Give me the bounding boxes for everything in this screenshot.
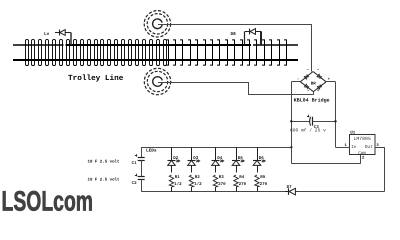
capacitor C1 and C2 chain bbox=[135, 147, 145, 191]
junction dot at LED rail tap bbox=[290, 146, 292, 148]
LED D6 bbox=[253, 147, 265, 172]
op-amp/regulator U1 box bbox=[350, 135, 376, 155]
svg-text:270: 270 bbox=[218, 182, 226, 187]
svg-text:D4: D4 bbox=[217, 156, 223, 161]
resistor R5 bbox=[255, 175, 259, 192]
trolley top rail center segment (live) bbox=[66, 44, 252, 46]
label U1 bbox=[350, 131, 356, 136]
svg-text:10 F 2.5 volt: 10 F 2.5 volt bbox=[88, 177, 120, 182]
label D2 bbox=[173, 156, 179, 161]
trolley top rail left segment bbox=[13, 44, 64, 46]
wire bridge minus lead bbox=[291, 81, 300, 83]
svg-text:Trolley Line: Trolley Line bbox=[68, 74, 124, 83]
svg-text:D5: D5 bbox=[238, 156, 244, 161]
label R5 bbox=[260, 175, 266, 180]
bridge corner mark ac top-right bbox=[317, 69, 320, 73]
svg-text:KBL04 Bridge: KBL04 Bridge bbox=[294, 97, 330, 103]
trolley bottom rail bbox=[13, 59, 298, 61]
wire riser to bridge bottom corner bbox=[313, 92, 315, 95]
wire jog down bbox=[248, 82, 250, 95]
svg-text:D7: D7 bbox=[287, 185, 293, 190]
wire to bridge AC bottom bbox=[248, 94, 313, 96]
svg-text:Out: Out bbox=[365, 144, 373, 150]
bridge label BR bbox=[311, 81, 317, 86]
wire LED bank bottom rail bbox=[141, 191, 284, 193]
svg-text:LM7805: LM7805 bbox=[354, 136, 371, 142]
svg-text:R1: R1 bbox=[175, 175, 181, 180]
svg-text:Com: Com bbox=[358, 151, 366, 156]
svg-text:R3: R3 bbox=[219, 175, 225, 180]
svg-text:D2: D2 bbox=[173, 156, 179, 161]
wire U1 com pin 2 bbox=[360, 155, 362, 163]
label R3 bbox=[219, 175, 225, 180]
bridge BR diamond with diodes bbox=[300, 72, 326, 92]
svg-text:~: ~ bbox=[306, 69, 309, 73]
wire U1 output pin 3 bbox=[375, 147, 384, 149]
label C3 value 600 mf / 25 v bbox=[290, 127, 326, 133]
label D4 bbox=[217, 156, 223, 161]
wire plus rail vertical bbox=[335, 82, 337, 148]
label R2 value 1/2 bbox=[194, 181, 202, 187]
label C1 value 10 F 2.5 volt bbox=[88, 160, 120, 165]
svg-text:1/2: 1/2 bbox=[194, 181, 202, 187]
bridge corner mark plus bottom-right bbox=[317, 88, 320, 93]
label LM7805 bbox=[354, 136, 371, 142]
label R4 value 270 bbox=[239, 182, 247, 187]
label C2 bbox=[132, 181, 138, 186]
capacitor C3 bbox=[291, 115, 335, 126]
diode Lv across rail gap bbox=[55, 30, 71, 46]
label Com bbox=[358, 151, 366, 156]
label R1 bbox=[175, 175, 181, 180]
junction dot at C3 right bbox=[334, 120, 336, 122]
svg-text:LSOLcom: LSOLcom bbox=[2, 185, 94, 216]
svg-text:BR: BR bbox=[311, 81, 317, 86]
wire output down bbox=[384, 147, 386, 191]
label R1 value 1/2 bbox=[174, 181, 182, 187]
label Lv bbox=[44, 32, 50, 37]
bridge corner mark ac top-left bbox=[306, 69, 309, 73]
svg-text:C2: C2 bbox=[132, 181, 138, 186]
label KBL04 Bridge bbox=[294, 97, 330, 103]
LED D5 bbox=[232, 147, 244, 172]
label R4 bbox=[239, 175, 245, 180]
svg-text:2: 2 bbox=[362, 156, 365, 161]
resistor R2 bbox=[189, 175, 193, 192]
svg-text:~: ~ bbox=[307, 89, 310, 93]
label D7 bbox=[287, 185, 293, 190]
junction dot at C3 left bbox=[290, 120, 292, 122]
svg-text:270: 270 bbox=[260, 182, 268, 187]
svg-text:C1: C1 bbox=[132, 161, 138, 166]
label C2 value 10 F 2.5 volt bbox=[88, 177, 120, 182]
resistor R1 bbox=[169, 175, 173, 192]
svg-text:600 mf / 25 v: 600 mf / 25 v bbox=[290, 127, 326, 133]
LED D3 bbox=[188, 147, 200, 172]
wheel pickup P2 (bottom) bbox=[144, 68, 170, 94]
label D3 bbox=[193, 156, 199, 161]
LED D4 bbox=[212, 147, 224, 172]
diode D7 bbox=[284, 188, 296, 195]
wire pickup P1 to corner bbox=[158, 24, 312, 26]
bridge corner mark minus left bbox=[297, 78, 299, 82]
label R3 value 270 bbox=[218, 182, 226, 187]
svg-text:D6: D6 bbox=[259, 156, 265, 161]
svg-text:~: ~ bbox=[317, 69, 320, 73]
svg-text:1/2: 1/2 bbox=[174, 181, 182, 187]
svg-text:270: 270 bbox=[239, 182, 247, 187]
label Trolley Line bbox=[68, 74, 124, 83]
wire bridge plus lead bbox=[326, 81, 335, 83]
svg-text:D3: D3 bbox=[193, 156, 199, 161]
wheel pickup P1 (top) bbox=[144, 11, 170, 37]
label R5 value 270 bbox=[260, 182, 268, 187]
svg-text:R5: R5 bbox=[260, 175, 266, 180]
svg-text:In: In bbox=[351, 145, 357, 150]
bridge corner mark plus right bbox=[328, 77, 331, 82]
pin number 2 bbox=[362, 156, 365, 161]
label C3 bbox=[314, 125, 320, 130]
svg-text:R4: R4 bbox=[239, 175, 245, 180]
resistor R4 bbox=[234, 175, 238, 192]
svg-text:Lv: Lv bbox=[44, 32, 50, 37]
wire pickup P2 right bbox=[158, 82, 248, 84]
wire minus rail vertical bbox=[291, 82, 293, 163]
label R2 bbox=[195, 175, 201, 180]
label Out bbox=[365, 144, 373, 150]
wire U1 input pin 1 bbox=[336, 147, 350, 149]
wire output bottom run bbox=[296, 191, 385, 193]
label D6 bbox=[259, 156, 265, 161]
bridge corner mark ac bottom-left bbox=[307, 89, 310, 93]
trolley top rail right segment bbox=[253, 44, 298, 46]
label LEDs bbox=[146, 149, 157, 154]
wire com return bbox=[291, 163, 361, 165]
wire corner down to bridge AC top bbox=[311, 24, 313, 71]
trolley track ties (bracket style, right) bbox=[166, 40, 287, 65]
svg-text:U1: U1 bbox=[350, 131, 356, 136]
trolley track ties (staple style, left) bbox=[26, 39, 167, 65]
svg-text:D8: D8 bbox=[231, 32, 237, 37]
LED D2 bbox=[168, 147, 180, 172]
svg-text:LEDs: LEDs bbox=[146, 149, 157, 154]
diode D8 bbox=[245, 29, 262, 46]
pin number 3 bbox=[376, 143, 379, 148]
resistor R3 bbox=[213, 175, 217, 192]
svg-text:10 F 2.5 volt: 10 F 2.5 volt bbox=[88, 160, 120, 165]
label D5 bbox=[238, 156, 244, 161]
pin number 1 bbox=[345, 143, 348, 148]
label D8 bbox=[231, 32, 237, 37]
wire LED bank top rail bbox=[141, 147, 291, 149]
svg-text:R2: R2 bbox=[195, 175, 201, 180]
label In bbox=[351, 145, 357, 150]
logo LSOL.com bbox=[2, 185, 94, 216]
label C1 bbox=[132, 161, 138, 166]
